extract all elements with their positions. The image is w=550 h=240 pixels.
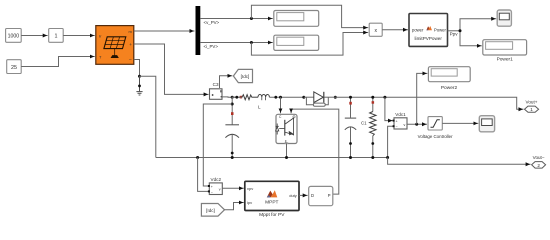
svg-text:<i_PV>: <i_PV>: [204, 44, 219, 49]
svg-text:vpv: vpv: [247, 186, 253, 191]
svg-text:+: +: [396, 120, 398, 124]
svg-text:C1: C1: [361, 121, 367, 126]
wire Ppv to scope and Power1: [448, 19, 493, 46]
svg-text:25: 25: [11, 65, 17, 71]
wire node to Vdc2 +: [203, 104, 232, 186]
PV array solar panel icon: [104, 37, 126, 58]
svg-text:duty: duty: [289, 193, 297, 198]
constant block 1000: [6, 29, 22, 43]
ground: [136, 76, 142, 95]
bottom rail: [156, 157, 388, 159]
wire C3 output to node: [222, 96, 240, 98]
wire voltage controller to scope2: [442, 122, 478, 124]
svg-text:1000: 1000: [8, 34, 20, 40]
wire 1 to PV Ir input: [63, 35, 95, 37]
svg-text:Power2: Power2: [441, 85, 458, 91]
display block V: [274, 11, 319, 27]
wire C3 i output to goto tag: [220, 76, 229, 88]
PWM generator block: [309, 186, 333, 205]
wire v_PV loop to product: [251, 5, 364, 27]
constant block 25: [7, 60, 22, 74]
svg-text:D: D: [311, 193, 314, 198]
display block Power2: [428, 67, 470, 92]
svg-text:Vdc2: Vdc2: [211, 177, 222, 182]
svg-text:−: −: [129, 58, 132, 64]
product block x: [369, 23, 382, 36]
svg-text:power: power: [412, 27, 424, 32]
junction IGBT collector: [279, 96, 282, 99]
wire PV m output to bus selector: [134, 30, 195, 32]
output port Vout-: [532, 155, 546, 168]
gate wire from PWM: [291, 109, 339, 194]
svg-text:1: 1: [530, 107, 533, 112]
svg-text:2: 2: [537, 163, 540, 168]
wire v_PV to display: [200, 17, 272, 25]
svg-text:+: +: [211, 185, 213, 189]
wire PV + output to C3: [134, 44, 205, 94]
svg-text:−: −: [396, 125, 398, 129]
svg-text:L: L: [258, 105, 261, 110]
bus selector bar: [196, 6, 201, 55]
wire PV - to bottom rail: [140, 76, 156, 157]
wire PV - output: [134, 60, 140, 77]
constant block 1: [49, 29, 64, 43]
svg-text:ipv: ipv: [247, 200, 252, 205]
display block I: [274, 35, 319, 50]
from tag Idc: [201, 204, 224, 217]
svg-text:v: v: [219, 188, 221, 192]
IGBT emitter wire: [286, 144, 288, 158]
current measurement C3: [210, 82, 223, 99]
load resistor branch: [370, 97, 376, 157]
svg-text:Power: Power: [434, 27, 446, 32]
svg-text:Vout+: Vout+: [526, 99, 538, 104]
top node wire to Vout+: [335, 97, 519, 109]
wire Vdc1 v out to voltage controller: [407, 123, 427, 125]
output port Vout+: [525, 99, 539, 112]
svg-text:[Idc]: [Idc]: [206, 208, 215, 213]
svg-text:[Idc]: [Idc]: [241, 74, 250, 79]
MPPT controller block: [245, 181, 299, 218]
PV array block U1: [96, 26, 134, 65]
wire i_PV loop to product: [251, 33, 364, 56]
measurement Vdc2: [208, 177, 222, 195]
svg-text:1: 1: [55, 34, 58, 40]
svg-text:<v_PV>: <v_PV>: [204, 20, 220, 25]
diode D1: [302, 92, 337, 106]
svg-text:v: v: [404, 123, 406, 127]
wire rail to Vout-: [388, 158, 527, 165]
svg-text:Ppv: Ppv: [450, 31, 459, 36]
svg-text:Vdc1: Vdc1: [395, 112, 406, 117]
wire Vdc2 to MPPT vpv: [222, 187, 244, 189]
input capacitor branch: [225, 97, 239, 157]
scope block Scope1: [497, 10, 511, 26]
capacitor C1 branch: [345, 97, 356, 157]
wire i_PV to display: [200, 41, 272, 49]
svg-text:C3: C3: [213, 82, 219, 87]
wire to Power2: [417, 73, 424, 124]
wire 1000 to 1: [21, 35, 48, 37]
node after C3: [231, 96, 234, 99]
wire duty to PWM: [299, 194, 308, 196]
measurement Vdc1: [383, 96, 386, 99]
svg-text:−: −: [211, 190, 213, 194]
IGBT block Q1: [276, 114, 297, 144]
svg-text:Voltage Controller: Voltage Controller: [418, 134, 453, 139]
scope block Scope2: [479, 116, 494, 132]
diode snubber: [306, 97, 313, 105]
svg-text:Power1: Power1: [497, 56, 514, 62]
display block Power1: [483, 40, 527, 63]
goto tag Idc: [233, 69, 252, 82]
svg-text:+: +: [129, 42, 132, 47]
voltage controller block: [418, 117, 453, 139]
wire product to limitPVPower: [382, 29, 408, 31]
wire 25 to PV T input: [21, 57, 94, 67]
svg-text:MPPT: MPPT: [265, 200, 278, 206]
wire from tag to MPPT ipv: [225, 203, 241, 210]
svg-text:Vout−: Vout−: [533, 155, 545, 160]
svg-text:limitPVPower: limitPVPower: [415, 36, 443, 41]
wire rail to Vdc2 -: [198, 158, 209, 192]
svg-text:P: P: [328, 193, 331, 198]
svg-text:Mppt for PV: Mppt for PV: [259, 212, 285, 218]
junction Vdc2 tap: [231, 103, 234, 106]
series RL branch L: [232, 94, 304, 100]
function block limitPVPower: [409, 14, 448, 47]
